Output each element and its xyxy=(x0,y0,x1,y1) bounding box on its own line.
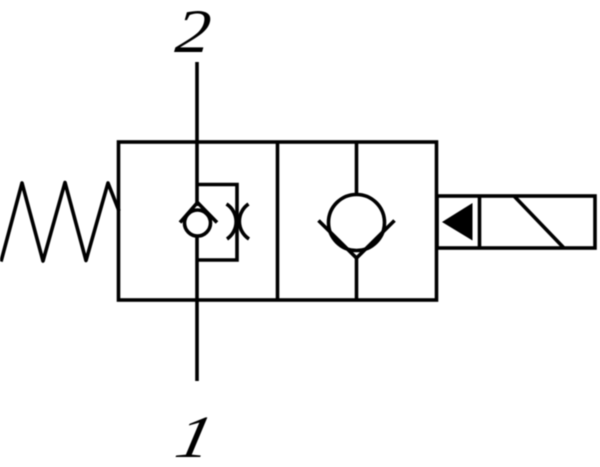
svg-text:2: 2 xyxy=(173,0,214,66)
